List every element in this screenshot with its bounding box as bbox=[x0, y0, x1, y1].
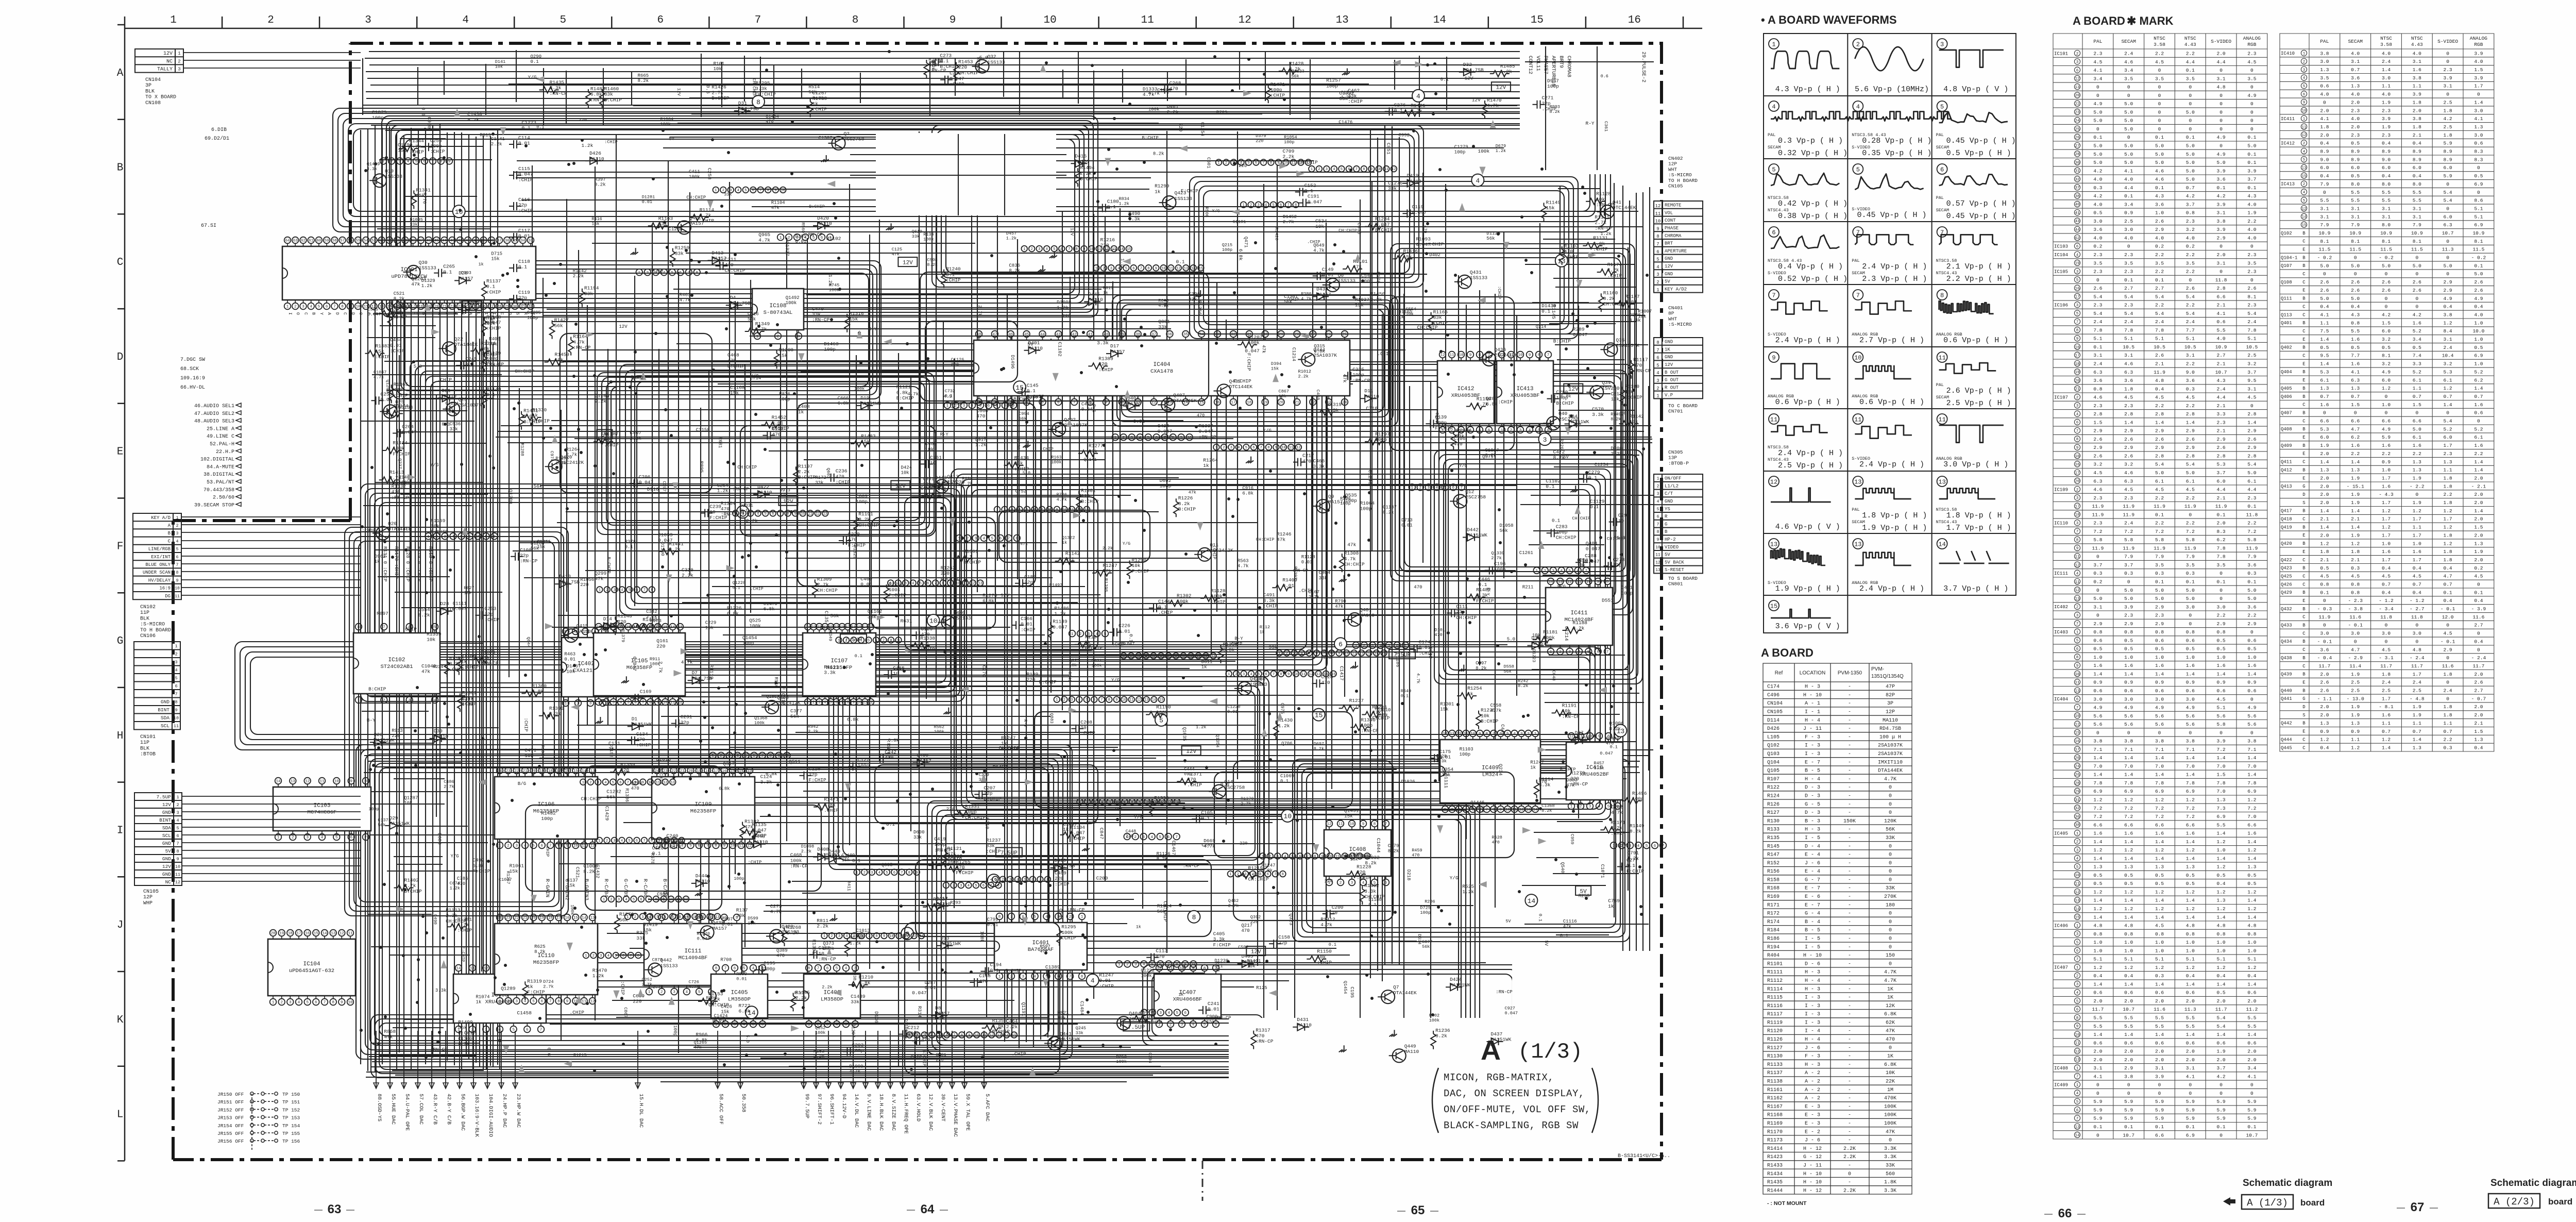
svg-text:8: 8 bbox=[1076, 247, 1078, 252]
svg-text:0.6: 0.6 bbox=[420, 107, 426, 116]
svg-text:470: 470 bbox=[1492, 840, 1500, 845]
svg-text:7: 7 bbox=[761, 755, 764, 759]
svg-text:Q103: Q103 bbox=[1767, 751, 1780, 757]
svg-text:56k: 56k bbox=[1504, 669, 1512, 674]
svg-text:C241: C241 bbox=[1208, 1001, 1219, 1007]
svg-text:C1282: C1282 bbox=[606, 789, 621, 795]
svg-text:D: D bbox=[350, 312, 355, 315]
svg-text:R168: R168 bbox=[1767, 886, 1780, 892]
power rail label bbox=[1564, 384, 1583, 393]
svg-text:IC405: IC405 bbox=[731, 990, 748, 996]
svg-text:1: 1 bbox=[1262, 855, 1264, 859]
svg-text:0.01: 0.01 bbox=[390, 343, 402, 348]
svg-text:56k: 56k bbox=[534, 483, 543, 489]
svg-text:HP-2: HP-2 bbox=[1665, 537, 1676, 542]
svg-text:1: 1 bbox=[626, 915, 629, 919]
svg-text:44: 44 bbox=[442, 239, 447, 243]
svg-text:MC74HC86F: MC74HC86F bbox=[308, 810, 337, 816]
svg-text:8.2k: 8.2k bbox=[467, 117, 479, 123]
svg-text:Q1006: Q1006 bbox=[1609, 721, 1624, 726]
svg-text:C167: C167 bbox=[1309, 590, 1320, 595]
svg-text:C716: C716 bbox=[1366, 406, 1378, 411]
svg-text:2: 2 bbox=[720, 755, 722, 759]
svg-text:33k: 33k bbox=[1433, 315, 1442, 321]
svg-text:22p: 22p bbox=[1613, 562, 1622, 568]
svg-text:10: 10 bbox=[1122, 698, 1126, 702]
svg-text:102.DIGITAL: 102.DIGITAL bbox=[200, 457, 234, 463]
svg-text:12: 12 bbox=[1104, 247, 1108, 252]
svg-text:0.1: 0.1 bbox=[990, 967, 999, 973]
svg-text:Q1327: Q1327 bbox=[784, 241, 790, 256]
svg-text:21: 21 bbox=[523, 769, 528, 774]
svg-text:10: 10 bbox=[1283, 813, 1292, 821]
svg-text:5: 5 bbox=[1245, 446, 1247, 450]
svg-text:8: 8 bbox=[365, 780, 367, 784]
svg-text:13: 13 bbox=[1184, 266, 1188, 271]
svg-text:5: 5 bbox=[434, 626, 436, 630]
svg-text:R506: R506 bbox=[1204, 207, 1209, 217]
svg-text:5V: 5V bbox=[601, 432, 608, 439]
svg-text:100k: 100k bbox=[660, 122, 671, 127]
svg-text:A - 2: A - 2 bbox=[1805, 1070, 1820, 1076]
svg-text:0.28 Vp-p ( H ): 0.28 Vp-p ( H ) bbox=[1862, 137, 1931, 145]
svg-text:D19: D19 bbox=[860, 395, 869, 401]
svg-text:4.7k: 4.7k bbox=[374, 375, 384, 380]
svg-text:11: 11 bbox=[1335, 855, 1340, 859]
svg-text:B:CHIP: B:CHIP bbox=[984, 796, 1002, 802]
svg-text:9: 9 bbox=[950, 14, 956, 26]
svg-text:12: 12 bbox=[680, 839, 684, 843]
svg-text:R1365: R1365 bbox=[394, 381, 409, 387]
svg-text:HV/DELAY: HV/DELAY bbox=[148, 578, 171, 583]
svg-text:C666: C666 bbox=[838, 396, 849, 401]
svg-text:C207: C207 bbox=[984, 785, 995, 791]
svg-text:100k: 100k bbox=[1148, 107, 1160, 112]
svg-text:1SS133: 1SS133 bbox=[419, 265, 437, 271]
svg-text:3: 3 bbox=[614, 588, 616, 592]
svg-text:3: 3 bbox=[818, 701, 821, 705]
svg-text:4: 4 bbox=[1192, 1023, 1195, 1027]
svg-text:3.3k: 3.3k bbox=[1313, 464, 1325, 470]
svg-text:2: 2 bbox=[897, 582, 899, 586]
svg-text:0.57 Vp-p ( H ): 0.57 Vp-p ( H ) bbox=[1946, 199, 2016, 208]
svg-text:D444: D444 bbox=[696, 873, 707, 879]
svg-text:3.3k: 3.3k bbox=[1592, 412, 1604, 417]
svg-text:C229: C229 bbox=[705, 620, 717, 625]
svg-text:R1142: R1142 bbox=[1065, 551, 1080, 557]
svg-text:2: 2 bbox=[953, 884, 955, 888]
svg-text:3: 3 bbox=[1071, 698, 1073, 702]
svg-text:1k: 1k bbox=[1530, 765, 1536, 770]
svg-text:8: 8 bbox=[767, 189, 769, 193]
svg-text:-: - bbox=[1848, 835, 1851, 841]
svg-text:100p: 100p bbox=[1326, 83, 1338, 89]
svg-text:7: 7 bbox=[176, 841, 179, 846]
svg-text:8.2k: 8.2k bbox=[394, 296, 405, 302]
svg-text:4: 4 bbox=[1637, 844, 1640, 848]
svg-text:C959: C959 bbox=[1570, 834, 1575, 844]
svg-text:4.7K: 4.7K bbox=[1884, 777, 1896, 782]
svg-text:R1133: R1133 bbox=[1767, 1062, 1783, 1068]
svg-text:LM324: LM324 bbox=[1482, 772, 1499, 778]
svg-text:2.7k: 2.7k bbox=[746, 518, 758, 524]
svg-text:R1121: R1121 bbox=[947, 846, 962, 851]
IC412 XRU4053BF switch bbox=[1437, 361, 1494, 424]
svg-text:0.1: 0.1 bbox=[1440, 77, 1449, 82]
svg-text:46: 46 bbox=[427, 239, 432, 243]
svg-text:CH:CHIP: CH:CHIP bbox=[1456, 615, 1477, 621]
svg-text:1k: 1k bbox=[527, 984, 533, 990]
svg-text:6: 6 bbox=[1396, 644, 1399, 648]
svg-text:R122: R122 bbox=[1767, 785, 1780, 791]
svg-text:15: 15 bbox=[1531, 14, 1544, 26]
IC110 M62358FP DAC bbox=[495, 924, 598, 995]
svg-text:REMOTE: REMOTE bbox=[1665, 203, 1681, 208]
svg-text:R1349: R1349 bbox=[755, 321, 770, 327]
svg-text:39.SECAM STOP: 39.SECAM STOP bbox=[194, 503, 234, 508]
svg-text:7.5UP: 7.5UP bbox=[1128, 1025, 1145, 1031]
svg-text:C496: C496 bbox=[1767, 693, 1780, 698]
svg-text:S-RESET: S-RESET bbox=[1665, 567, 1684, 573]
svg-text:7: 7 bbox=[1262, 161, 1264, 165]
svg-text:R1119: R1119 bbox=[1767, 1020, 1783, 1026]
svg-text:6: 6 bbox=[1338, 641, 1343, 648]
svg-text:84.A-MUTE: 84.A-MUTE bbox=[207, 464, 234, 470]
svg-text:4.9: 4.9 bbox=[944, 394, 952, 399]
svg-text:I: I bbox=[413, 312, 418, 315]
svg-text:3.3k: 3.3k bbox=[1128, 216, 1140, 222]
svg-text:8.V.SIZE DAC: 8.V.SIZE DAC bbox=[890, 1094, 896, 1131]
svg-text:R1037: R1037 bbox=[1355, 297, 1370, 303]
svg-text:7: 7 bbox=[817, 967, 820, 971]
svg-text:5: 5 bbox=[1086, 698, 1088, 702]
svg-text:R1061: R1061 bbox=[510, 863, 524, 869]
svg-text:R184: R184 bbox=[1767, 928, 1780, 933]
svg-text:4: 4 bbox=[621, 839, 623, 843]
svg-text::RN-CP: :RN-CP bbox=[805, 232, 823, 238]
svg-text:R1413: R1413 bbox=[389, 470, 404, 475]
svg-text:R1247: R1247 bbox=[1001, 735, 1016, 741]
svg-text:0.047: 0.047 bbox=[1586, 546, 1601, 551]
svg-text:5: 5 bbox=[1292, 855, 1294, 859]
svg-text:2.2k: 2.2k bbox=[646, 614, 657, 620]
svg-text:4: 4 bbox=[607, 954, 609, 958]
svg-text:D17: D17 bbox=[1110, 343, 1119, 349]
svg-text:13: 13 bbox=[1450, 732, 1455, 736]
svg-text:0.047: 0.047 bbox=[1505, 1011, 1518, 1016]
svg-text:C: C bbox=[303, 312, 309, 315]
svg-text:14: 14 bbox=[1119, 247, 1123, 252]
svg-text:1.8 Vp-p ( H ): 1.8 Vp-p ( H ) bbox=[1862, 511, 1927, 520]
svg-text:Y/G: Y/G bbox=[1459, 463, 1467, 468]
svg-text:3: 3 bbox=[1232, 161, 1234, 165]
svg-text:5: 5 bbox=[452, 312, 457, 315]
svg-text:56k: 56k bbox=[1291, 74, 1299, 79]
svg-text:R-GAIN: R-GAIN bbox=[544, 879, 550, 897]
svg-text:100p: 100p bbox=[934, 842, 946, 847]
svg-text:YS: YS bbox=[1665, 507, 1670, 512]
svg-text:R171: R171 bbox=[1767, 902, 1780, 908]
svg-text:56k: 56k bbox=[1422, 944, 1430, 949]
svg-text:6.8k: 6.8k bbox=[1223, 647, 1235, 653]
svg-text:R135: R135 bbox=[1767, 835, 1780, 841]
svg-text:0.1: 0.1 bbox=[518, 264, 527, 270]
svg-text:6: 6 bbox=[1061, 247, 1063, 252]
svg-text::CHIP: :CHIP bbox=[921, 646, 936, 652]
svg-text:0.1: 0.1 bbox=[1329, 942, 1336, 947]
svg-text:C916: C916 bbox=[1242, 486, 1253, 491]
svg-text:5: 5 bbox=[532, 1000, 535, 1004]
transistor Q34 bbox=[1590, 386, 1603, 399]
svg-text:H - 3: H - 3 bbox=[1805, 970, 1820, 976]
svg-text:C444: C444 bbox=[1184, 767, 1194, 772]
svg-text:CN401: CN401 bbox=[1668, 305, 1683, 311]
svg-text:R1128: R1128 bbox=[1301, 555, 1315, 560]
svg-text:C426: C426 bbox=[721, 1004, 732, 1009]
svg-text:Q815: Q815 bbox=[820, 625, 830, 630]
svg-text:.CHIP: .CHIP bbox=[437, 377, 452, 382]
svg-text:2.2k: 2.2k bbox=[822, 984, 832, 990]
svg-text:board: board bbox=[2548, 1197, 2572, 1207]
svg-text:DTA144EK: DTA144EK bbox=[454, 342, 478, 347]
svg-text:8: 8 bbox=[1108, 698, 1110, 702]
svg-text:2: 2 bbox=[1063, 698, 1065, 702]
transistor Q40 bbox=[1547, 416, 1560, 430]
svg-text:1K: 1K bbox=[1887, 986, 1893, 992]
svg-text:10: 10 bbox=[956, 582, 960, 586]
svg-text:48: 48 bbox=[976, 333, 981, 337]
svg-text:1SS133: 1SS133 bbox=[1470, 275, 1488, 281]
svg-text:13: 13 bbox=[590, 769, 595, 774]
svg-text:0.45 Vp-p ( H ): 0.45 Vp-p ( H ) bbox=[1946, 212, 2016, 221]
svg-text:470: 470 bbox=[1633, 362, 1642, 368]
svg-text:10: 10 bbox=[801, 512, 805, 516]
svg-text:C265: C265 bbox=[443, 264, 455, 270]
svg-text:C239: C239 bbox=[709, 504, 721, 510]
svg-text:BRT9: BRT9 bbox=[1558, 56, 1564, 68]
svg-text:13: 13 bbox=[1526, 808, 1531, 812]
svg-text:-: - bbox=[1848, 751, 1851, 757]
svg-text:PAL: PAL bbox=[1768, 132, 1775, 138]
svg-text:8: 8 bbox=[1363, 168, 1365, 172]
svg-text:.CHIP: .CHIP bbox=[750, 587, 764, 592]
svg-text:C1261: C1261 bbox=[1519, 550, 1533, 556]
svg-text:8P: 8P bbox=[1668, 311, 1674, 316]
svg-text:43: 43 bbox=[450, 239, 455, 243]
svg-text:8.2k: 8.2k bbox=[1630, 828, 1641, 834]
svg-text:D429: D429 bbox=[1055, 858, 1066, 863]
svg-text:4.7k: 4.7k bbox=[850, 1069, 861, 1075]
svg-text:C419: C419 bbox=[934, 836, 946, 842]
svg-text:R1219: R1219 bbox=[1248, 865, 1263, 871]
svg-text:R1264: R1264 bbox=[1203, 458, 1218, 463]
svg-text:C1311: C1311 bbox=[537, 540, 551, 545]
svg-text:1.2k: 1.2k bbox=[1120, 258, 1125, 269]
svg-text:11: 11 bbox=[348, 932, 353, 936]
svg-text:10: 10 bbox=[1161, 266, 1165, 271]
svg-text:Q406: Q406 bbox=[953, 610, 965, 616]
svg-text:CXA1478: CXA1478 bbox=[1150, 369, 1173, 375]
svg-text:5: 5 bbox=[1259, 873, 1261, 877]
svg-text:61: 61 bbox=[309, 239, 314, 243]
svg-text:Q41: Q41 bbox=[1613, 199, 1621, 205]
svg-text:R1266: R1266 bbox=[1197, 300, 1202, 315]
svg-text:1.2k: 1.2k bbox=[850, 941, 861, 946]
svg-text:B:CHIP: B:CHIP bbox=[963, 560, 981, 565]
svg-text:30: 30 bbox=[513, 305, 518, 309]
svg-text:Q1454: Q1454 bbox=[766, 114, 779, 120]
svg-text:1: 1 bbox=[1081, 915, 1083, 919]
svg-text:12V: 12V bbox=[1324, 879, 1333, 884]
svg-text:7: 7 bbox=[1175, 835, 1178, 840]
svg-text:R1395: R1395 bbox=[555, 456, 569, 461]
svg-text:4: 4 bbox=[912, 582, 914, 586]
svg-text:F:CHIP: F:CHIP bbox=[809, 777, 827, 783]
svg-text:6.8k: 6.8k bbox=[982, 598, 994, 604]
svg-text:.CHIP: .CHIP bbox=[1158, 434, 1173, 440]
svg-text:14: 14 bbox=[862, 626, 868, 630]
svg-text:R1180: R1180 bbox=[1624, 383, 1639, 389]
svg-text:22p: 22p bbox=[484, 611, 493, 617]
svg-text:23: 23 bbox=[506, 769, 511, 774]
svg-text:3.3k: 3.3k bbox=[760, 779, 772, 785]
svg-text:100k: 100k bbox=[570, 905, 575, 915]
svg-text:0: 0 bbox=[1889, 877, 1892, 883]
svg-text:C994: C994 bbox=[1019, 411, 1029, 416]
svg-text:D218: D218 bbox=[1406, 869, 1411, 881]
svg-text:4.7k: 4.7k bbox=[812, 96, 824, 102]
svg-text:1SS133: 1SS133 bbox=[1175, 196, 1193, 202]
svg-text:Q682: Q682 bbox=[633, 376, 644, 381]
svg-text:Q471: Q471 bbox=[1243, 237, 1248, 248]
svg-text:6: 6 bbox=[835, 701, 838, 705]
svg-text:0.1: 0.1 bbox=[443, 269, 452, 275]
svg-text:R1257: R1257 bbox=[1326, 78, 1341, 83]
svg-text:17: 17 bbox=[296, 932, 301, 936]
svg-text:Q35: Q35 bbox=[1616, 337, 1624, 343]
svg-text:1.2k: 1.2k bbox=[1496, 148, 1506, 154]
svg-text:B:CHIP: B:CHIP bbox=[1142, 136, 1158, 141]
svg-text:C276: C276 bbox=[1394, 102, 1406, 108]
svg-text:7: 7 bbox=[779, 512, 782, 516]
svg-text:4: 4 bbox=[625, 898, 627, 902]
svg-text:100p: 100p bbox=[858, 763, 870, 768]
transistor Q401 bbox=[1348, 613, 1361, 626]
svg-text:O: O bbox=[507, 312, 512, 315]
svg-text:C448: C448 bbox=[1126, 829, 1136, 834]
svg-text:33k: 33k bbox=[986, 843, 995, 849]
svg-text:—: — bbox=[2077, 1210, 2086, 1218]
svg-text:12: 12 bbox=[484, 967, 488, 971]
svg-text:56k: 56k bbox=[554, 323, 563, 328]
waveform 13 cell bbox=[1853, 539, 1863, 549]
svg-text:0: 0 bbox=[1889, 869, 1892, 875]
svg-text:.CHIP: .CHIP bbox=[518, 300, 533, 306]
svg-text:66.HV-DL: 66.HV-DL bbox=[180, 385, 205, 391]
svg-text:4: 4 bbox=[1250, 673, 1252, 677]
svg-text:D725: D725 bbox=[1420, 906, 1430, 911]
svg-text:C1079: C1079 bbox=[372, 109, 387, 115]
svg-text:2: 2 bbox=[383, 699, 385, 703]
svg-text:56k: 56k bbox=[1500, 528, 1508, 533]
svg-text:1.2k: 1.2k bbox=[450, 886, 460, 891]
svg-text:10k: 10k bbox=[1315, 224, 1324, 229]
svg-text:12: 12 bbox=[990, 1033, 994, 1037]
svg-text:2.2k: 2.2k bbox=[1298, 374, 1309, 379]
svg-text:14: 14 bbox=[456, 967, 461, 971]
svg-text:Q22: Q22 bbox=[454, 336, 463, 342]
svg-text:10k: 10k bbox=[464, 590, 471, 595]
svg-text:7: 7 bbox=[1493, 732, 1495, 736]
svg-text:2: 2 bbox=[1031, 247, 1033, 252]
svg-text:0.6 Vp-p ( H ): 0.6 Vp-p ( H ) bbox=[1859, 398, 1924, 407]
waveform 5 cell bbox=[1769, 164, 1779, 174]
svg-text:1: 1 bbox=[1550, 650, 1552, 655]
svg-text:470: 470 bbox=[1414, 585, 1422, 590]
svg-text:47k: 47k bbox=[694, 1045, 702, 1050]
svg-text:Y/G: Y/G bbox=[1450, 875, 1459, 881]
IC111 MC14094BF shift register bbox=[644, 924, 742, 985]
svg-text:R578: R578 bbox=[650, 853, 655, 864]
svg-text:C1360: C1360 bbox=[458, 1036, 472, 1042]
svg-text:0.1: 0.1 bbox=[442, 422, 450, 427]
svg-text:1: 1 bbox=[1656, 288, 1659, 293]
svg-text:6: 6 bbox=[946, 1033, 948, 1037]
svg-text:3: 3 bbox=[289, 1001, 292, 1005]
svg-text:2: 2 bbox=[1527, 732, 1530, 736]
svg-text:24: 24 bbox=[805, 626, 810, 630]
svg-text:5: 5 bbox=[1308, 651, 1310, 656]
svg-text:59.X TAL OPE: 59.X TAL OPE bbox=[964, 1094, 970, 1131]
svg-text:2.7k: 2.7k bbox=[543, 984, 553, 990]
svg-text:C927: C927 bbox=[1505, 1006, 1515, 1011]
transistor Q439 bbox=[1217, 384, 1230, 397]
svg-text:2: 2 bbox=[1856, 41, 1860, 48]
svg-text:56k: 56k bbox=[1019, 416, 1026, 422]
svg-text:R1117: R1117 bbox=[1767, 1012, 1783, 1017]
svg-text:33k: 33k bbox=[1319, 575, 1328, 581]
svg-text:1: 1 bbox=[823, 934, 825, 939]
svg-text:F:CHIP: F:CHIP bbox=[481, 351, 499, 357]
transistor Q9 bbox=[1316, 499, 1330, 513]
svg-text:9: 9 bbox=[349, 305, 352, 309]
svg-text:R1138: R1138 bbox=[1767, 1079, 1783, 1085]
svg-text:0.047: 0.047 bbox=[697, 936, 710, 942]
svg-text::CHIP: :CHIP bbox=[1270, 93, 1285, 98]
svg-text::CHIP: :CHIP bbox=[390, 348, 405, 354]
connector CN101 bbox=[134, 642, 180, 730]
svg-text:R790: R790 bbox=[1335, 599, 1346, 604]
svg-text:C196: C196 bbox=[1494, 561, 1506, 567]
svg-text:3: 3 bbox=[730, 189, 732, 193]
svg-text:E - 6: E - 6 bbox=[1805, 894, 1820, 900]
svg-text:R1115: R1115 bbox=[1767, 995, 1783, 1001]
svg-text:15k: 15k bbox=[1045, 969, 1054, 975]
svg-text:13: 13 bbox=[1211, 655, 1215, 659]
svg-text:0: 0 bbox=[1889, 844, 1892, 849]
svg-text:R1207: R1207 bbox=[1248, 334, 1263, 340]
svg-text:C169: C169 bbox=[640, 689, 652, 694]
svg-text:D1238: D1238 bbox=[1214, 958, 1228, 963]
svg-text:F:CHIP: F:CHIP bbox=[461, 946, 466, 962]
voltage table right rows bbox=[2301, 50, 2307, 227]
svg-text:D634: D634 bbox=[1417, 934, 1422, 944]
svg-text:1: 1 bbox=[1114, 436, 1116, 440]
svg-text:R1470: R1470 bbox=[1487, 97, 1502, 103]
svg-text::CHIP: :CHIP bbox=[1055, 881, 1070, 887]
svg-text:21: 21 bbox=[442, 305, 447, 309]
svg-text:5: 5 bbox=[415, 160, 418, 164]
